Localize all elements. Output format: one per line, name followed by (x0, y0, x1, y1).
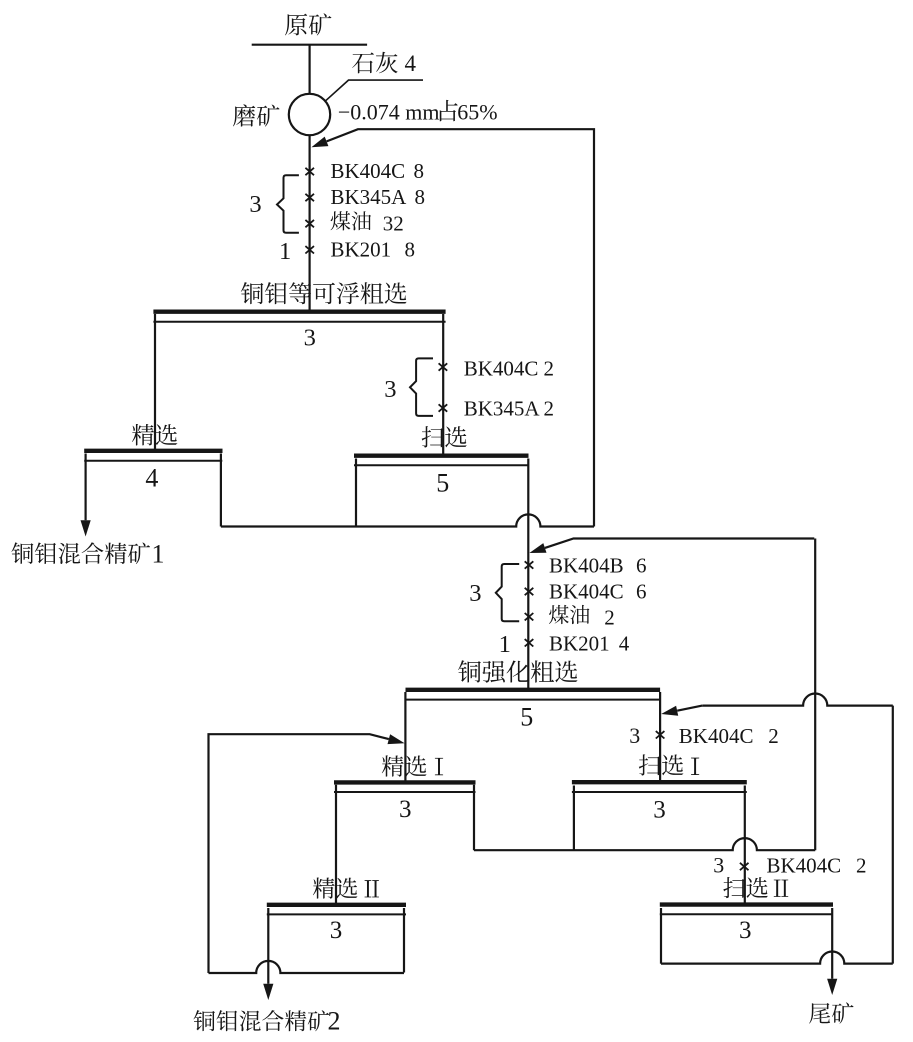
flotation cell bank: scavenger II froth line (660, 913, 833, 915)
svg-text:1: 1 (499, 631, 511, 658)
label: roman II (774, 880, 788, 897)
wire: cleanerII tailings to left riser (hop over conc) (209, 961, 405, 973)
wire: cleanerII tailings down (403, 908, 405, 973)
wire: scavenger concentrate down (355, 459, 357, 527)
wire: scavenger tailings down to section 2 (527, 459, 529, 689)
brace: reagents group 3 (496, 564, 519, 621)
reagent: kerosene 煤油 (549, 605, 589, 624)
svg-text:BK404C: BK404C (331, 159, 406, 183)
wire: scavI tailings down to scavenger II (744, 786, 746, 907)
svg-text:8: 8 (415, 185, 426, 209)
wire: middlings collect to riser (hop over scavI tailings) (474, 838, 815, 850)
svg-text:2: 2 (768, 724, 779, 748)
svg-text:2: 2 (544, 356, 555, 380)
wire: rougher2 tailings to scavenger I (659, 692, 661, 783)
wire: mill discharge to rougher (309, 135, 311, 310)
reagent: kerosene 煤油 (331, 211, 371, 230)
svg-text:−0.074 mm: −0.074 mm (338, 100, 440, 125)
wire: rougher2 concentrate to cleaner I (404, 692, 406, 783)
reagent feed point on section2 feed (525, 561, 534, 568)
flotation cell bank: cleaner II froth line (267, 913, 406, 915)
reagent feed point on section2 feed (525, 639, 534, 646)
flotation cell bank: cleaner II thick bar (267, 903, 406, 907)
flotation cell bank: cleaner thick bar (84, 449, 222, 453)
label: 铜钼等可浮粗选 (Cu-Mo rougher) (241, 282, 407, 304)
svg-text:1: 1 (152, 540, 165, 569)
svg-text:3: 3 (399, 796, 412, 823)
reagent feed point on section2 feed (525, 588, 534, 595)
wire: cleaner tailings down (220, 454, 222, 527)
flotation cell bank: scavenger thick bar (354, 454, 529, 458)
flotation cell bank: rougher 1 thick bar (153, 310, 445, 314)
wire: scavI concentrate down (573, 786, 575, 851)
label: raw ore 原矿 (285, 13, 331, 35)
svg-text:3: 3 (653, 797, 666, 824)
svg-text:3: 3 (469, 580, 481, 607)
flotation cell bank: scavenger II thick bar (660, 902, 833, 906)
svg-text:BK404B: BK404B (549, 553, 624, 577)
wire: final tailings out (827, 908, 837, 995)
label: 铜钼混合精矿 (product 2) (194, 1010, 330, 1031)
svg-text:6: 6 (636, 553, 647, 577)
flotation cell bank: rougher2 thick bar (406, 688, 661, 692)
reagent feed point x4 on mill discharge (305, 246, 314, 253)
reagent feed point x1 on mill discharge (305, 168, 314, 175)
label: roman I (691, 758, 699, 775)
svg-text:5: 5 (436, 468, 449, 497)
wire: middlings riser to section2 feed (814, 539, 816, 851)
svg-text:BK404C: BK404C (679, 724, 754, 748)
svg-text:2: 2 (328, 1007, 341, 1036)
svg-text:6: 6 (636, 580, 647, 604)
svg-text:3: 3 (629, 723, 640, 748)
svg-text:4: 4 (405, 51, 417, 76)
wire: cleanerII tailings recycle to cleaner I feed (209, 734, 405, 973)
label: lime 石灰 (352, 52, 397, 74)
flotation cell bank: rougher 1 froth line (153, 321, 445, 323)
reagent feed point on scavenger feed (BK404C) (439, 363, 448, 370)
flotation cell bank: scavenger froth line (354, 464, 529, 466)
label: 精选 (cleaner) (132, 424, 177, 446)
label: roman I (435, 758, 443, 775)
svg-text:BK345A: BK345A (464, 396, 541, 420)
svg-text:2: 2 (544, 396, 555, 420)
label: 精选 I (382, 755, 427, 776)
svg-text:BK404C: BK404C (767, 853, 842, 877)
flotation cell bank: scavenger I froth line (572, 791, 747, 793)
label: 扫选 II (723, 877, 768, 898)
wire: scavII conc to outer riser (hop over tailings) (661, 952, 893, 964)
svg-text:2: 2 (604, 605, 615, 629)
wire: cleaner concentrate out (product 1) (81, 454, 91, 537)
svg-text:65%: 65% (457, 100, 497, 125)
wire: feed drop into mill (309, 45, 311, 95)
label: 尾矿 (tailings) (809, 1002, 853, 1023)
wire: scavII conc return horizontal (702, 694, 893, 706)
wire: cleanerII concentrate out (product 2) (263, 908, 273, 1000)
svg-text:3: 3 (739, 917, 752, 944)
svg-text:4: 4 (145, 463, 158, 492)
label: 扫选 (scavenger) (422, 426, 467, 447)
svg-text:BK201: BK201 (331, 237, 392, 261)
reagent feed point x3 on mill discharge (305, 220, 314, 227)
svg-text:3: 3 (330, 917, 343, 944)
reagent feed point on section2 feed (525, 613, 534, 620)
reagent feed point on scavenger feed (BK345A) (439, 404, 448, 411)
svg-text:3: 3 (384, 376, 396, 403)
brace: reagents group 1 (277, 175, 299, 232)
svg-text:1: 1 (279, 238, 291, 265)
wire: lime leader line (325, 80, 423, 101)
wire: middlings return to mill (311, 129, 594, 526)
brace: reagents group 2 (410, 358, 433, 416)
wire: middlings collect (hop over scav tailings) (221, 514, 594, 526)
label: roman II (365, 880, 379, 897)
svg-text:BK404C: BK404C (464, 356, 539, 380)
wire: rougher1 tailings to scavenger (442, 314, 444, 457)
label: 扫选 I (639, 754, 684, 775)
label: 精选 II (313, 877, 358, 898)
reagent feed point on scavII feed (740, 863, 749, 870)
label: 铜钼混合精矿 (product 1) (11, 542, 150, 564)
wire: recycled middlings into section2 feed (529, 539, 814, 554)
grinding mill circle 磨矿 (289, 94, 330, 135)
flotation cell bank: scavenger I thick bar (572, 780, 747, 784)
flotation cell bank: cleaner I froth line (334, 791, 476, 793)
svg-text:32: 32 (383, 211, 404, 235)
svg-text:BK404C: BK404C (549, 580, 624, 604)
reagent feed point on scavI feed (656, 731, 665, 738)
reagent feed point x2 on mill discharge (305, 194, 314, 201)
svg-text:8: 8 (405, 237, 416, 261)
wire: feed header bar (252, 44, 367, 46)
wire: cleanerI tailings down (473, 785, 475, 851)
svg-text:3: 3 (304, 324, 316, 351)
label: 铜强化粗选 (Cu enhanced rougher) (458, 660, 578, 682)
svg-text:BK345A: BK345A (331, 185, 408, 209)
wire: scavII conc outer riser (892, 706, 894, 964)
label: 占 (accounts for) (440, 100, 458, 121)
svg-text:BK201: BK201 (549, 631, 610, 655)
wire: scavII conc return arrow (661, 706, 702, 716)
label: grinding 磨矿 (233, 104, 280, 126)
flotation cell bank: rougher2 froth line (406, 699, 661, 701)
svg-text:5: 5 (520, 702, 533, 731)
svg-text:8: 8 (414, 159, 425, 183)
svg-text:3: 3 (249, 191, 261, 218)
wire: rougher1 concentrate to cleaner (154, 314, 156, 452)
flotation cell bank: cleaner I thick bar (334, 780, 476, 784)
svg-text:4: 4 (619, 631, 630, 655)
flotation cell bank: cleaner froth line (84, 460, 222, 462)
wire: cleanerI concentrate to cleaner II (335, 785, 337, 906)
wire: scavII concentrate down (660, 908, 662, 964)
svg-text:3: 3 (713, 852, 724, 877)
svg-text:2: 2 (856, 853, 867, 877)
